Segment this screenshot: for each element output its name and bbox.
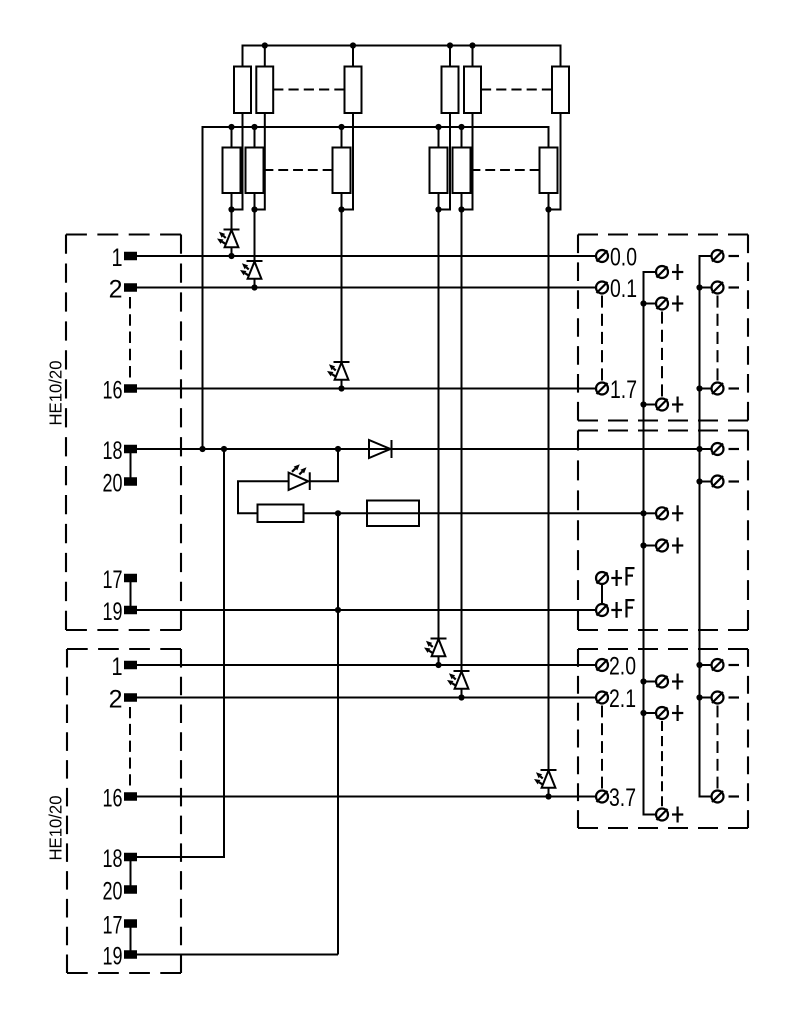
wire plus bus vertical	[644, 272, 656, 815]
wire resistor top stub x=254.5	[254, 127, 256, 148]
pin X2.1	[124, 661, 137, 670]
resistor R5	[464, 67, 481, 114]
dashed continuation 2.1..3.7	[601, 706, 603, 789]
wire pin X1.17 tie to X1.19	[130, 578, 132, 610]
dashed continuation R8..R9	[264, 169, 333, 171]
dashed continuation minus2..minus3	[717, 296, 719, 381]
resistor R2	[256, 67, 273, 114]
resistor R1	[234, 67, 251, 114]
wire LED V7 cathode to pin-18 net	[310, 449, 338, 481]
dashed continuation minus7..minus8	[717, 706, 719, 789]
terminal minus 2	[712, 282, 724, 294]
svg-text:16: 16	[103, 377, 123, 405]
node bus1-R4	[447, 42, 453, 48]
resistor R4	[442, 67, 459, 114]
label plus 4	[672, 512, 683, 514]
svg-text:2: 2	[109, 686, 123, 714]
dashed continuation R5..R6	[481, 89, 552, 91]
dashed pin continuation X1.2..X1.16	[129, 297, 131, 378]
wire channel riser to LED V3	[341, 193, 343, 362]
wire stub plus 7	[644, 712, 656, 714]
svg-text:3.7: 3.7	[609, 784, 636, 812]
wire pin X2.17 tie to X2.19	[130, 924, 132, 955]
LED V6	[534, 770, 557, 797]
label minus 7	[729, 696, 740, 698]
terminal plus 7	[656, 707, 668, 719]
wire pin X2.1 to terminal 2.0	[137, 664, 595, 666]
terminal 3.7	[596, 791, 608, 803]
terminal plus 5	[656, 540, 668, 552]
terminal minus 7	[712, 692, 724, 704]
wire bus 1 (top resistor bus with end legs down to R1 and R6)	[243, 46, 561, 67]
svg-text:0.1: 0.1	[610, 275, 637, 303]
wire pin X1.2 to terminal 0.1	[137, 287, 595, 289]
terminal block outline (inputs 0.x)	[578, 233, 748, 235]
pin X2.20	[124, 885, 137, 894]
node plus 5	[640, 542, 646, 548]
terminal block outline (inputs 2.x)	[578, 648, 748, 650]
wire R5-R11 bottom leg	[462, 113, 473, 210]
label minus 1	[729, 255, 740, 257]
terminal minus 6	[712, 659, 724, 671]
terminal plus 8	[656, 809, 668, 821]
node plus 3	[640, 401, 646, 407]
label plus 5	[672, 544, 683, 546]
LED V2	[240, 261, 263, 288]
LED V1	[217, 230, 240, 257]
label minus 4	[729, 448, 740, 450]
node pin-18 / bus2 leg	[199, 446, 205, 452]
resistor R3	[345, 67, 362, 114]
wire stub plus 6	[644, 681, 656, 683]
wire channel riser to LED V6	[548, 193, 550, 770]
terminal 2.1	[596, 692, 608, 704]
wire pin X2.19 to +F riser	[137, 954, 338, 956]
wire bus 2 (second resistor bus, left leg down to pin-18 net, right leg to R12)	[203, 127, 549, 449]
svg-text:16: 16	[103, 785, 123, 813]
pin X1.1	[124, 252, 137, 261]
pin X1.16	[124, 384, 137, 393]
pin X2.2	[124, 693, 137, 702]
dashed continuation 0.1..1.7	[601, 296, 603, 381]
resistor R10	[430, 148, 448, 194]
wire channel riser to LED V4	[438, 193, 440, 639]
label plus 2	[672, 302, 683, 304]
wire +F riser down to X2.19	[337, 513, 339, 954]
wire R4 top stub	[449, 46, 451, 67]
terminal 1.7	[596, 383, 608, 395]
node LED V4 on wire 2.0	[435, 662, 441, 668]
node R3-R9 junction	[338, 206, 344, 212]
wire channel riser to LED V2	[254, 193, 256, 261]
node LED V5 on wire 2.1	[458, 694, 464, 700]
wire pin-18 net	[137, 448, 700, 450]
wire stub plus 3	[644, 404, 656, 406]
svg-text:20: 20	[103, 878, 123, 906]
svg-text:1: 1	[112, 244, 123, 272]
svg-text:19: 19	[103, 943, 123, 971]
svg-text:1: 1	[112, 653, 123, 681]
connector X2 outline (HE10/20)	[67, 648, 181, 650]
wire R3 top stub	[352, 46, 354, 67]
node bus2 junction x=438.5	[435, 124, 441, 130]
wire channel riser to LED V1	[231, 193, 233, 230]
node LED V3 on pin-16 wire	[338, 385, 344, 391]
wire pin X2.18 up to pin-18 net	[137, 449, 224, 857]
pin X2.19	[124, 950, 137, 959]
label plus 8	[672, 813, 683, 815]
terminal block outline (supply)	[578, 429, 748, 431]
wire stub plus 4	[644, 512, 656, 514]
wire LED V7 anode loop	[238, 481, 289, 513]
svg-text:19: 19	[103, 598, 123, 626]
label minus 6	[729, 664, 740, 666]
resistor R6	[552, 67, 569, 114]
label minus 2	[729, 286, 740, 288]
wire stub plus 2	[644, 303, 656, 305]
node R13/F1/+F riser	[335, 510, 341, 516]
wire pin X1.19 to terminal +F	[137, 609, 595, 611]
dashed pin continuation X2.2..X2.16	[129, 707, 131, 786]
label plus 7	[672, 712, 683, 714]
terminal 0.1	[596, 282, 608, 294]
terminal minus 5	[712, 476, 724, 488]
terminal 0.0	[596, 250, 608, 262]
label plus 6	[672, 680, 683, 682]
pin X1.2	[124, 283, 137, 292]
node R4-R10 junction	[435, 206, 441, 212]
label minus 8	[729, 795, 740, 797]
resistor R13	[258, 505, 304, 523]
node pin-18 / minus bus	[696, 446, 702, 452]
svg-text:18: 18	[103, 437, 123, 465]
pin X1.17	[124, 574, 137, 583]
wire pin X1.18 tie to X1.20	[130, 449, 132, 482]
resistor R12	[540, 148, 558, 194]
terminal minus 8	[712, 791, 724, 803]
node LED V6 on wire 3.7	[545, 793, 551, 799]
node minus 7	[696, 694, 702, 700]
pin X1.19	[124, 606, 137, 615]
dashed continuation plus2..plus3	[661, 312, 663, 397]
terminal plus 6	[656, 676, 668, 688]
label plus 1	[672, 271, 683, 273]
diode V9	[369, 440, 391, 458]
wire stub minus 5	[700, 481, 711, 483]
resistor R7	[223, 148, 241, 194]
wire channel riser to LED V5	[461, 193, 463, 671]
wire minus bus vertical	[700, 256, 711, 797]
terminal plus 1	[656, 266, 668, 278]
wire pin X2.2 to terminal 2.1	[137, 697, 595, 699]
node pin-19 net riser junction	[335, 607, 341, 613]
dashed continuation R11..R12	[471, 169, 540, 171]
node minus 3	[696, 385, 702, 391]
LED V3	[327, 362, 350, 389]
LED V5	[447, 671, 470, 698]
svg-text:2.1: 2.1	[609, 685, 636, 713]
svg-text:18: 18	[103, 845, 123, 873]
node minus 6	[696, 662, 702, 668]
wire R5 top stub	[472, 46, 474, 67]
wire resistor top stub x=438.5	[438, 127, 440, 148]
node bus1-R2	[262, 42, 268, 48]
resistor R8	[246, 148, 264, 194]
node minus 2	[696, 284, 702, 290]
wire R3-R9 bottom leg	[342, 113, 354, 210]
node fuse wire / plus bus	[640, 510, 646, 516]
wire resistor top stub x=231.5	[231, 127, 233, 148]
svg-text:20: 20	[103, 470, 123, 498]
dashed continuation plus7..plus8	[661, 721, 663, 806]
terminal minus 1	[712, 250, 724, 262]
node bus1-R3	[350, 42, 356, 48]
node pin-18 net / X2.18 riser	[221, 446, 227, 452]
wire stub minus 7	[700, 697, 711, 699]
node minus 5	[696, 478, 702, 484]
pin X2.18	[124, 853, 137, 862]
node R5-R11 junction	[458, 206, 464, 212]
svg-text:2.0: 2.0	[609, 652, 636, 680]
resistor R11	[453, 148, 471, 194]
terminal plus 2	[656, 298, 668, 310]
wire +F tie	[601, 578, 603, 610]
pin X2.17	[124, 919, 137, 928]
node bus1-R5	[469, 42, 475, 48]
wire R4-R10 bottom leg	[439, 113, 451, 210]
label +F lower	[611, 609, 622, 611]
svg-text:17: 17	[103, 912, 123, 940]
wire stub plus 5	[644, 545, 656, 547]
wire R2-R8 bottom leg	[255, 113, 265, 210]
fuse F1	[367, 501, 419, 527]
node plus 2	[640, 300, 646, 306]
terminal plus 3	[656, 399, 668, 411]
node R2-R8 junction	[251, 206, 257, 212]
wire R1-R7 bottom leg	[232, 113, 243, 210]
svg-text:0.0: 0.0	[610, 243, 637, 271]
node LED V1 on pin-1 wire	[228, 253, 234, 259]
wire R13 to fuse F1 to plus bus	[304, 512, 644, 514]
node bus2 junction x=461.5	[458, 124, 464, 130]
pin X1.20	[124, 477, 137, 486]
resistor R9	[333, 148, 351, 194]
wire pin X1.16 to terminal 1.7	[137, 388, 595, 390]
svg-text:1.7: 1.7	[610, 376, 637, 404]
label minus 3	[729, 387, 740, 389]
wire pin X2.16 to terminal 3.7	[137, 796, 595, 798]
pin X1.18	[124, 445, 137, 454]
LED V7 (fuse indicator)	[289, 473, 309, 490]
terminal +F lower	[596, 604, 608, 616]
wire R2 top stub	[264, 46, 266, 67]
wire pin X2.18 tie to X2.20	[130, 857, 132, 890]
node pin-18 / LED V7 riser	[335, 446, 341, 452]
svg-text:2: 2	[109, 276, 123, 304]
label +F upper	[611, 577, 622, 579]
node bus2 junction x=254.5	[251, 124, 257, 130]
terminal minus 3	[712, 383, 724, 395]
pin X2.16	[124, 792, 137, 801]
terminal plus 4	[656, 507, 668, 519]
dashed continuation R2..R3	[273, 89, 344, 91]
node plus 6	[640, 678, 646, 684]
node R1-R7 junction	[228, 206, 234, 212]
label plus 3	[672, 403, 683, 405]
node plus 7	[640, 710, 646, 716]
node LED V2 on pin-2 wire	[251, 284, 257, 290]
terminal 2.0	[596, 659, 608, 671]
terminal minus 4	[712, 443, 724, 455]
node R6-R12 junction	[545, 206, 551, 212]
svg-text:HE10/20: HE10/20	[45, 360, 65, 425]
svg-text:17: 17	[103, 566, 123, 594]
wire R6-R12 bottom leg	[549, 113, 561, 210]
wire stub minus 2	[700, 287, 711, 289]
svg-text:HE10/20: HE10/20	[45, 795, 65, 860]
wire resistor top stub x=341.5	[341, 127, 343, 148]
node bus2 junction x=231.5	[228, 124, 234, 130]
wire pin X1.1 to terminal 0.0	[137, 255, 595, 257]
wire stub minus 3	[700, 388, 711, 390]
wire stub minus 6	[700, 664, 711, 666]
connector X1 outline (HE10/20)	[66, 233, 181, 235]
wire stub minus 4	[700, 448, 711, 450]
LED V4	[424, 639, 447, 666]
terminal +F upper	[596, 572, 608, 584]
node bus2 junction x=341.5	[338, 124, 344, 130]
wire resistor top stub x=461.5	[461, 127, 463, 148]
label minus 5	[729, 480, 740, 482]
